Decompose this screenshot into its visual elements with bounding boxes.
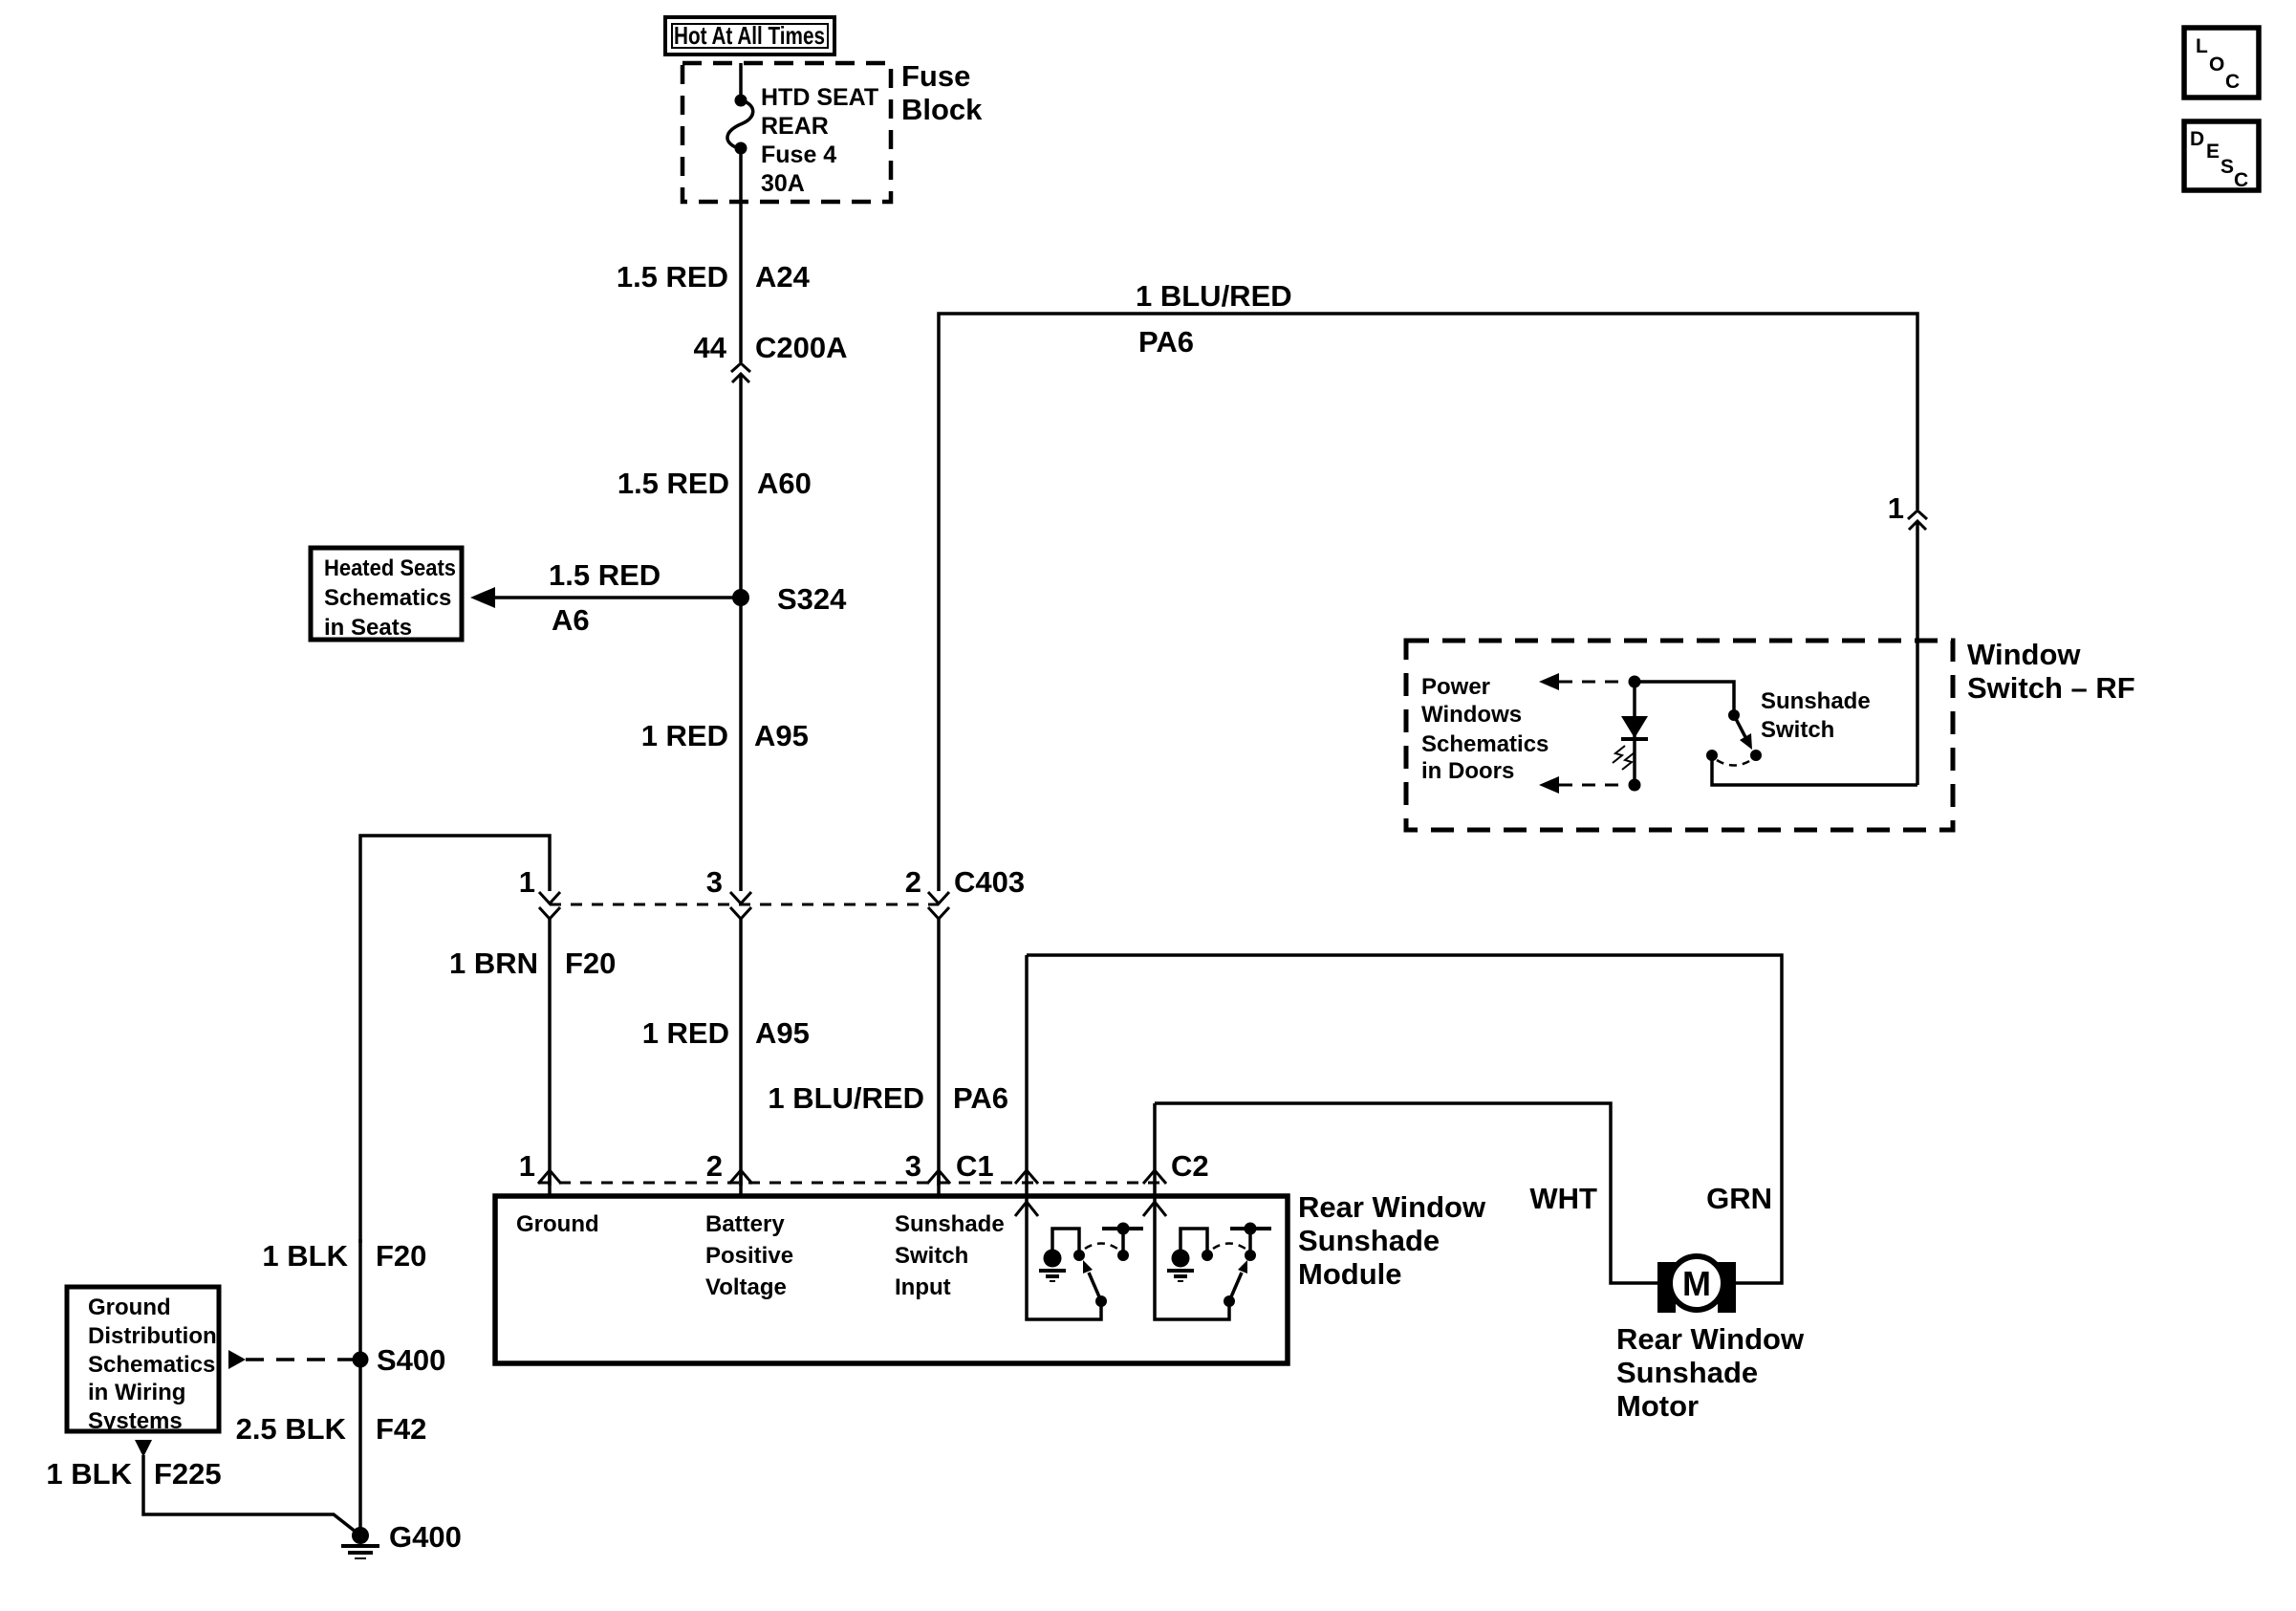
switch Sunshade Switch in window switch [1635,682,1917,785]
wire dashed arrow lower to power windows [1539,776,1625,794]
svg-text:1 BLU/RED: 1 BLU/RED [1136,279,1292,313]
svg-text:1: 1 [519,1149,535,1183]
svg-text:D: D [2190,128,2204,150]
wire fuse top lead [739,63,743,100]
svg-text:GRN: GRN [1706,1182,1772,1215]
connector C1 row [519,1149,1209,1183]
svg-text:Sunshade: Sunshade [1616,1356,1758,1389]
node DESC reference box [2184,121,2259,191]
svg-text:1: 1 [1888,491,1904,525]
connector C200A pin 44 [694,331,848,382]
svg-text:3: 3 [706,865,723,899]
node Hot At All Times flag [665,17,834,54]
svg-text:C: C [2234,169,2248,191]
svg-text:A95: A95 [754,719,809,752]
svg-text:C: C [2225,71,2240,93]
svg-text:Schematics: Schematics [1421,731,1549,757]
wire 1.5 RED A60 [617,375,812,598]
svg-text:Positive: Positive [705,1243,793,1269]
svg-text:A95: A95 [755,1016,810,1050]
node LOC reference box [2184,28,2259,98]
node Rear Window Sunshade Module box [495,1196,1288,1363]
svg-text:Schematics: Schematics [88,1352,215,1378]
wire 1 BLU/RED PA6 lower [768,917,1008,1186]
wire 1 RED A95 lower [642,917,810,1186]
svg-text:Sunshade: Sunshade [895,1211,1005,1237]
svg-text:S400: S400 [377,1343,445,1377]
svg-text:Ground: Ground [88,1295,171,1320]
svg-text:Battery: Battery [705,1211,785,1237]
node Heated Seats Schematics in Seats [311,548,462,641]
svg-text:1 BLU/RED: 1 BLU/RED [768,1081,924,1115]
svg-text:in Seats: in Seats [324,615,412,641]
svg-text:E: E [2206,141,2220,163]
wire into window switch [1916,522,1919,785]
svg-text:Sunshade: Sunshade [1761,688,1871,714]
svg-text:2: 2 [706,1149,723,1183]
svg-text:S324: S324 [777,582,847,616]
svg-text:F42: F42 [376,1412,426,1446]
label Fuse Block [901,59,983,126]
wire 1 RED A95 upper [641,598,809,891]
svg-text:M: M [1682,1264,1711,1303]
wire dashed arrow upper to power windows [1539,673,1627,690]
svg-text:1.5 RED: 1.5 RED [549,558,661,592]
svg-text:Switch – RF: Switch – RF [1967,671,2135,705]
connector C403 pin 1 [539,892,560,919]
connector C403 pin 2 [928,892,949,919]
connector C403 row [519,865,1025,904]
svg-text:1: 1 [519,865,535,899]
wire 1 BLU/RED PA6 top run [939,279,1917,891]
connector C1 pin 3 [927,1170,950,1184]
svg-text:PA6: PA6 [1138,325,1194,359]
wire 1.5 RED A24 [617,148,811,362]
relay switch cell 1 in module [1015,955,1143,1319]
wire 1.5 RED A6 arrow to Heated Seats [470,558,741,637]
svg-text:1.5 RED: 1.5 RED [617,260,728,294]
wire 1 BLK F20 [262,1239,426,1360]
svg-text:44: 44 [694,331,727,364]
svg-text:Fuse: Fuse [901,59,970,93]
svg-text:2: 2 [905,865,921,899]
svg-text:Schematics: Schematics [324,585,451,611]
svg-text:L: L [2196,35,2208,57]
node Window Switch RF dashed box [1406,641,1953,830]
svg-text:S: S [2220,156,2234,178]
wire WHT motor feed [1155,1103,1657,1283]
wire GRN motor feed [1027,955,1782,1283]
svg-text:Power: Power [1421,674,1490,700]
svg-text:Windows: Windows [1421,702,1522,728]
wire 2.5 BLK F42 [236,1360,427,1535]
svg-text:Systems: Systems [88,1408,183,1434]
svg-text:HTD SEAT: HTD SEAT [761,84,878,111]
label Power Windows Schematics in Doors [1421,674,1549,784]
connector pin 1 Window Switch RF [1888,491,1927,530]
svg-text:A24: A24 [755,260,811,294]
svg-text:WHT: WHT [1529,1182,1597,1215]
wire 1 BRN F20 [449,917,616,1186]
svg-text:Rear Window: Rear Window [1616,1322,1805,1356]
connector C2 pin right [1143,1170,1166,1184]
connector C1 pin 1 [538,1170,561,1184]
connector C2 pin left [1015,1170,1038,1184]
svg-text:in Doors: in Doors [1421,758,1514,784]
svg-text:1 BRN: 1 BRN [449,947,538,980]
svg-text:Motor: Motor [1616,1389,1699,1423]
svg-text:F20: F20 [376,1239,426,1273]
node Ground Distribution Schematics in Wiring Systems [67,1287,219,1434]
wire module pin stubs [550,1170,939,1196]
svg-text:F20: F20 [565,947,616,980]
svg-text:1 RED: 1 RED [642,1016,729,1050]
svg-text:Window: Window [1967,638,2081,671]
svg-text:in Wiring: in Wiring [88,1380,185,1405]
svg-text:Fuse 4: Fuse 4 [761,142,836,168]
svg-text:C200A: C200A [755,331,848,364]
svg-text:Ground: Ground [516,1211,599,1237]
svg-text:1.5 RED: 1.5 RED [617,467,729,500]
label Window Switch - RF [1967,638,2135,705]
svg-text:A60: A60 [757,467,812,500]
svg-text:Input: Input [895,1274,951,1300]
svg-text:1 RED: 1 RED [641,719,728,752]
svg-text:Block: Block [901,93,983,126]
svg-text:2.5 BLK: 2.5 BLK [236,1412,347,1446]
svg-text:1 BLK: 1 BLK [262,1239,348,1273]
svg-text:Rear Window: Rear Window [1298,1190,1486,1224]
relay switch cell 2 in module [1143,1103,1271,1319]
svg-text:30A: 30A [761,170,805,197]
svg-text:Heated Seats: Heated Seats [324,555,456,581]
fuse HTD SEAT REAR Fuse 4 30A [727,84,878,197]
label Rear Window Sunshade Module [1298,1190,1486,1291]
fuse block dashed box [682,63,891,202]
svg-text:C1: C1 [956,1149,994,1183]
LED indicator window switch [1613,676,1648,792]
svg-text:Distribution: Distribution [88,1323,217,1349]
wire dashed arrow to ground distribution [228,1350,353,1369]
svg-text:3: 3 [905,1149,921,1183]
ground G400 [341,1520,462,1558]
svg-text:Sunshade: Sunshade [1298,1224,1440,1257]
svg-text:C403: C403 [954,865,1025,899]
wire F20 branch top [360,836,550,1243]
splice S400 [353,1343,446,1377]
svg-text:Hot At All Times: Hot At All Times [674,21,825,50]
motor M Rear Window Sunshade Motor [1657,1256,1736,1313]
svg-text:Module: Module [1298,1257,1402,1291]
svg-text:Switch: Switch [1761,717,1834,743]
splice S324 [732,582,847,616]
label Rear Window Sunshade Motor [1616,1322,1805,1423]
svg-text:Switch: Switch [895,1243,968,1269]
svg-text:1 BLK: 1 BLK [46,1457,132,1491]
svg-text:F225: F225 [154,1457,222,1491]
svg-text:C2: C2 [1171,1149,1209,1183]
svg-text:Voltage: Voltage [705,1274,787,1300]
svg-text:REAR: REAR [761,113,829,140]
wire 1 BLK F225 [46,1440,360,1535]
svg-text:PA6: PA6 [953,1081,1008,1115]
svg-text:G400: G400 [389,1520,462,1554]
svg-text:O: O [2209,54,2224,76]
connector C1 pin 2 [729,1170,752,1184]
label module pin functions [516,1211,1005,1300]
connector C403 pin 3 [730,892,751,919]
svg-text:A6: A6 [552,603,590,637]
